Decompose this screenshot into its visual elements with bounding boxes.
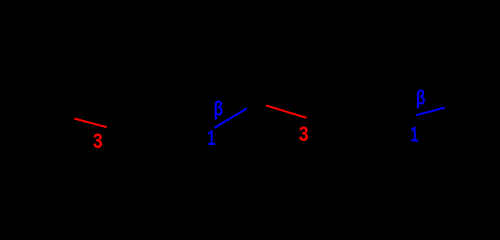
svg-text:1: 1 xyxy=(207,125,215,150)
svg-text:β: β xyxy=(416,87,426,109)
beta-1,3-glucan skeletal structure: black bonds on black background; highlighted glycosidic linkage bonds and locants xyxy=(0,0,500,165)
svg-text:β: β xyxy=(214,98,224,120)
svg-text:1: 1 xyxy=(410,122,418,147)
svg-text:3: 3 xyxy=(299,122,309,146)
svg-text:3: 3 xyxy=(93,130,103,154)
bond C3-O (red), left sugar xyxy=(74,119,106,128)
bond C1-O (blue), right sugar xyxy=(416,108,444,116)
bond C3-O (red), middle sugar xyxy=(266,106,307,118)
bond C1-O (blue), middle sugar xyxy=(214,108,246,128)
